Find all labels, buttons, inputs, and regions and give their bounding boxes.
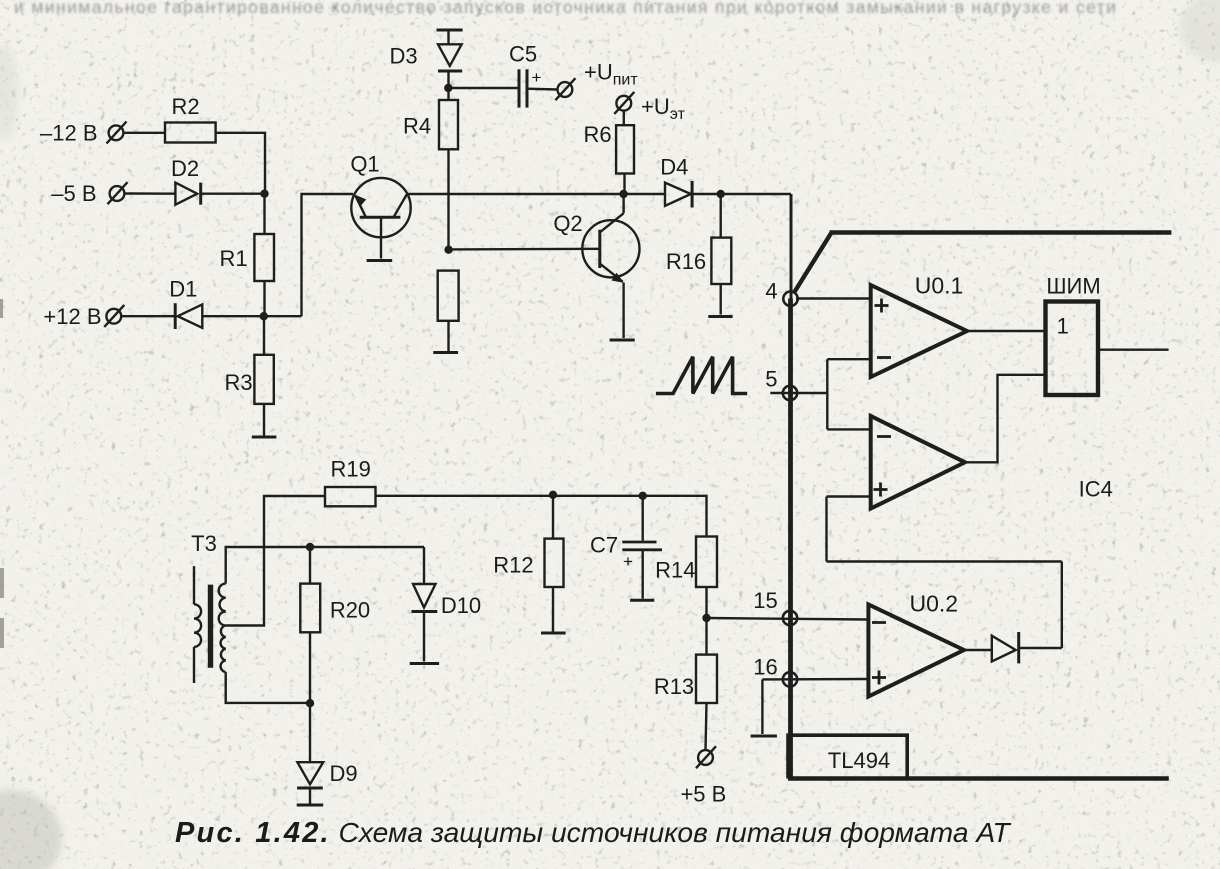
wire node I to D10	[310, 546, 424, 548]
supply stub bar above D3	[437, 29, 463, 32]
svg-text:D9: D9	[330, 761, 358, 786]
svg-text:TL494: TL494	[828, 748, 890, 773]
resistor R13	[696, 655, 717, 751]
wire opamp2 output to PWM box	[965, 375, 1046, 463]
diode D11 (U0.2 output)	[992, 632, 1019, 663]
node D (junction dot R4/Q2 base)	[444, 246, 452, 254]
resistor R3	[254, 316, 273, 436]
wire D2 to node A	[201, 192, 265, 194]
svg-text:4: 4	[765, 279, 777, 304]
node B (junction dot)	[260, 312, 268, 320]
svg-text:Q2: Q2	[553, 211, 582, 236]
wire U0.1 output to PWM box	[967, 330, 1046, 332]
ground below Q1	[367, 259, 393, 262]
terminal +5V	[696, 746, 716, 768]
wire R19 to R14 corner	[376, 496, 707, 537]
wire +12V terminal to D1	[121, 315, 175, 317]
wire node B up to Q1 base rail	[302, 194, 354, 316]
svg-text:D3: D3	[390, 44, 418, 69]
svg-text:Q1: Q1	[350, 152, 379, 177]
ground below C7	[630, 599, 654, 602]
op-amp U0.1	[871, 285, 967, 377]
wire PWM output	[1098, 349, 1169, 351]
svg-text:–12 В: –12 В	[40, 121, 98, 146]
node H (junction C7)	[639, 492, 647, 500]
TL494 box outline	[788, 735, 907, 778]
ground below D9	[297, 804, 324, 807]
svg-text:и минимальное гарантированное: и минимальное гарантированное количество…	[14, 0, 1117, 17]
svg-text:D1: D1	[169, 277, 197, 302]
node I (junction T3 top / R20 / D10)	[306, 543, 314, 551]
svg-text:–5 В: –5 В	[51, 181, 96, 206]
diode D2	[175, 183, 200, 205]
svg-text:U0.1: U0.1	[915, 273, 964, 299]
terminal -5V	[108, 182, 128, 204]
thick diagonal to top rail	[794, 233, 832, 294]
figure caption	[175, 816, 1011, 849]
ground below Q2	[610, 339, 635, 342]
transistor Q1	[351, 178, 410, 259]
wire rail corner into IC vertical	[790, 194, 793, 299]
pin 15 terminal	[707, 611, 869, 625]
resistor R19	[325, 487, 376, 506]
svg-text:R14: R14	[655, 558, 695, 583]
resistor R6	[616, 111, 634, 194]
svg-text:ШИМ: ШИМ	[1046, 274, 1100, 299]
svg-text:+12 В: +12 В	[43, 304, 101, 329]
svg-text:+5 В: +5 В	[680, 782, 726, 807]
top thick rail	[830, 230, 1172, 234]
svg-text:C7: C7	[590, 533, 618, 558]
resistor R12	[545, 495, 564, 632]
svg-text:Схема защиты источников питани: Схема защиты источников питания формата …	[339, 816, 1012, 848]
svg-text:Рис. 1.42.: Рис. 1.42.	[175, 817, 331, 849]
svg-text:R13: R13	[654, 674, 694, 699]
resistor R14	[696, 537, 717, 655]
node C (junction dot)	[444, 84, 452, 92]
svg-text:R2: R2	[171, 94, 199, 119]
wire pin 4 to U0.1 plus input	[796, 297, 871, 299]
svg-text:D4: D4	[660, 155, 688, 180]
ground below D10	[410, 662, 439, 665]
svg-text:U0.2: U0.2	[910, 591, 959, 617]
node G (junction R12)	[549, 491, 557, 499]
svg-text:15: 15	[753, 588, 777, 613]
diode D10	[412, 547, 438, 662]
svg-text:R16: R16	[666, 249, 706, 274]
terminal +Uet	[614, 92, 634, 114]
sawtooth waveform symbol	[656, 357, 747, 394]
resistor R5 (unlabeled)	[438, 271, 459, 351]
svg-text:+: +	[532, 68, 542, 87]
resistor R1	[254, 194, 274, 317]
wire C5 to +Upit terminal	[527, 87, 558, 90]
wire node E to D4	[624, 193, 665, 195]
pin 4 terminal	[783, 292, 797, 306]
svg-text:5: 5	[765, 367, 777, 392]
transistor Q2	[582, 194, 639, 338]
wire Q1 collector to main rail right	[407, 193, 624, 195]
wire D3 to node C	[447, 71, 449, 100]
wire U0.2 output to diode	[964, 649, 992, 651]
svg-text:+: +	[623, 552, 633, 571]
wire D4 to node F	[692, 193, 791, 195]
capacitor C7	[622, 496, 662, 599]
wire diode to feedback corner	[1019, 647, 1062, 649]
svg-text:R20: R20	[330, 598, 370, 623]
op-amp U0.3 (middle, unlabeled)	[871, 416, 965, 509]
svg-text:R1: R1	[219, 246, 247, 271]
IC left thick vertical line	[788, 299, 793, 779]
wire -5V terminal to D2	[124, 192, 175, 195]
node K (junction R14/R13/pin15)	[702, 614, 710, 622]
wire opamp2 plus input link down	[827, 497, 1062, 649]
ground below R12	[541, 632, 566, 635]
resistor R2	[165, 123, 216, 143]
svg-text:R12: R12	[493, 553, 533, 578]
svg-text:R6: R6	[583, 122, 611, 147]
resistor R4	[439, 100, 458, 250]
pin 5 terminal	[770, 386, 827, 400]
pin 16 terminal	[762, 672, 868, 686]
node F (junction dot D4/R16)	[717, 190, 725, 198]
ground at pin 16	[751, 679, 777, 736]
svg-text:R4: R4	[403, 114, 431, 139]
ground below unlabeled resistor	[433, 351, 458, 354]
ground below R16	[708, 315, 732, 318]
svg-text:1: 1	[1057, 314, 1069, 339]
wire node D to Q2 base	[449, 248, 600, 251]
svg-text:IC4: IC4	[1079, 477, 1113, 502]
svg-text:D10: D10	[441, 593, 481, 618]
node A (junction dot)	[260, 190, 268, 198]
svg-text:C5: C5	[509, 42, 537, 67]
svg-text:D2: D2	[171, 156, 199, 181]
wire R19 left corner down to T3 tap	[226, 496, 325, 626]
diode D1	[175, 303, 202, 329]
wire D1 to node B	[202, 315, 301, 317]
diode D3	[438, 44, 462, 71]
svg-text:T3: T3	[191, 531, 217, 556]
node J (junction T3 bottom / R20 / D9)	[306, 699, 314, 707]
transformer T3	[194, 547, 310, 703]
wire pin5 H link: U0.1 minus / opamp2 minus	[827, 359, 870, 429]
ground below R3	[252, 436, 277, 439]
svg-text:R3: R3	[224, 370, 252, 395]
svg-text:R19: R19	[331, 457, 371, 482]
terminal +Upit	[555, 78, 575, 100]
diode D4	[665, 181, 692, 208]
wire -12V terminal to R2	[123, 132, 165, 134]
wire R2 to corner and down to -5V node	[216, 133, 265, 194]
resistor R16	[711, 194, 731, 315]
terminal +12V	[104, 305, 124, 327]
capacitor C5	[519, 68, 542, 108]
PWM comparator box (ШИМ)	[1046, 302, 1099, 396]
wire stub to D3	[447, 30, 449, 44]
op-amp U0.2	[868, 604, 964, 696]
terminal -12V	[107, 122, 127, 144]
node E (junction dot rail/R6/Q2)	[619, 190, 627, 198]
svg-text:16: 16	[753, 655, 777, 680]
bottom thick rail	[788, 776, 1169, 780]
wire node C to C5	[448, 87, 517, 89]
resistor R20	[300, 547, 320, 704]
diode D9	[297, 704, 323, 804]
